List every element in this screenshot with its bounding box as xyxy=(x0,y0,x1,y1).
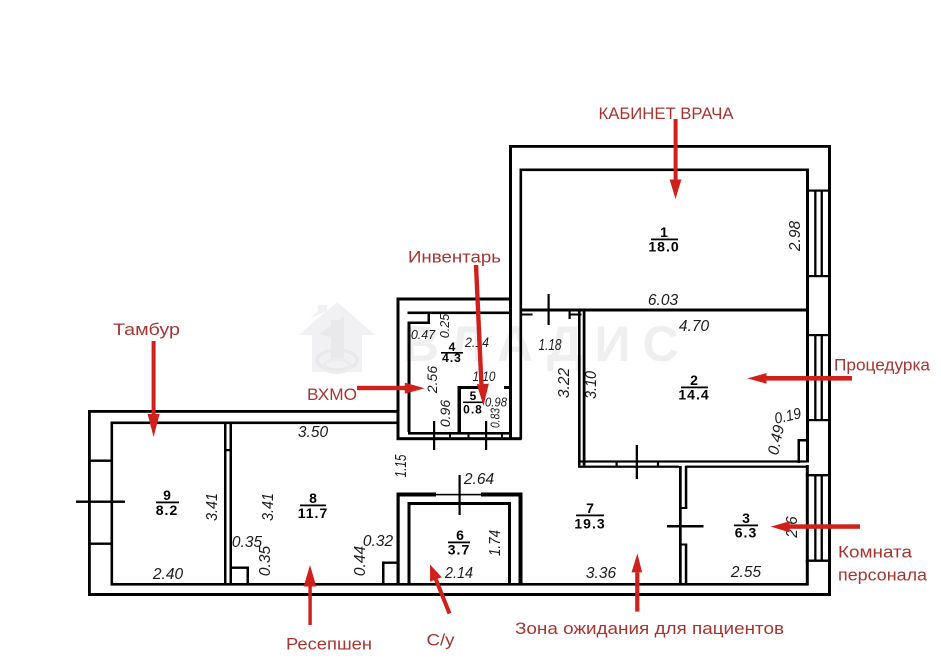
wall: room6 inner xyxy=(408,502,411,584)
wall: between room1 and room2 xyxy=(520,309,808,312)
svg-text:18.0: 18.0 xyxy=(648,239,679,255)
svg-text:9: 9 xyxy=(163,487,171,503)
red annotation: VHMO xyxy=(307,383,425,404)
wall: right outer of building xyxy=(828,145,831,596)
wall: left inner line xyxy=(111,422,114,586)
window1 bottom sill xyxy=(806,275,831,277)
wall: top inner of rooms 9 and 8 xyxy=(111,422,400,425)
wall: left outer of upper block / right of inventory block (line A) xyxy=(509,145,512,440)
svg-text:0.35: 0.35 xyxy=(257,546,274,577)
wall: WC block right xyxy=(519,493,523,586)
svg-text:2.40: 2.40 xyxy=(152,566,184,583)
wall: partition room7|room3 right line lower xyxy=(685,546,688,586)
svg-text:персонала: персонала xyxy=(838,566,928,585)
svg-text:Процедурка: Процедурка xyxy=(834,356,931,375)
svg-text:2.14: 2.14 xyxy=(444,565,473,582)
wall: room4 left inner xyxy=(408,322,411,433)
svg-text:Зона ожидания для пациентов: Зона ожидания для пациентов xyxy=(515,619,784,638)
window3 bottom sill xyxy=(806,560,831,562)
wall: room7 top lower line left part xyxy=(578,466,679,468)
svg-text:2.98: 2.98 xyxy=(787,221,804,253)
step room8 bottom-left 0.35 xyxy=(232,567,250,569)
wall: room5 top xyxy=(458,386,486,389)
wall: bottom inner line xyxy=(111,583,809,586)
wall: top outer of upper block xyxy=(509,145,831,148)
red annotation: procedure room xyxy=(747,356,930,384)
svg-text:19.3: 19.3 xyxy=(574,516,605,532)
wall: WC block top xyxy=(397,493,437,497)
wall: room8 right segment xyxy=(397,412,400,438)
svg-text:0.98: 0.98 xyxy=(485,396,507,410)
wall: room4 top inner xyxy=(408,312,510,315)
svg-text:0.8: 0.8 xyxy=(463,403,483,417)
tick: door of room2 xyxy=(636,445,638,479)
long ticks below inventory block xyxy=(433,421,435,450)
svg-text:0.44: 0.44 xyxy=(352,546,369,577)
svg-text:1.18: 1.18 xyxy=(539,337,562,354)
step 0.19x0.49 in room2 corner xyxy=(798,439,807,442)
red annotation: waiting zone xyxy=(515,553,784,638)
window1 glazing xyxy=(814,190,816,277)
red annotation: staff room xyxy=(771,521,928,584)
svg-text:1.74: 1.74 xyxy=(487,530,504,556)
svg-text:ВХМО: ВХМО xyxy=(307,385,357,404)
svg-text:2.14: 2.14 xyxy=(464,334,489,350)
red annotation: inventory xyxy=(408,248,501,407)
svg-text:5: 5 xyxy=(470,389,477,403)
svg-text:3.50: 3.50 xyxy=(298,424,329,441)
svg-text:4.3: 4.3 xyxy=(442,351,462,365)
walls xyxy=(76,145,831,596)
svg-text:1.15: 1.15 xyxy=(393,454,410,477)
wall: inventory block bottom inner xyxy=(408,432,511,435)
wall: room1 top inner xyxy=(520,169,808,172)
svg-text:3.36: 3.36 xyxy=(586,565,617,582)
svg-text:С/у: С/у xyxy=(427,631,456,650)
wall: room2 left (double line) xyxy=(578,312,581,466)
tick: left entrance xyxy=(76,501,125,503)
svg-text:1.10: 1.10 xyxy=(473,368,496,384)
svg-text:0.47: 0.47 xyxy=(411,328,436,342)
watermark house logo xyxy=(299,302,375,373)
window1 top sill xyxy=(806,190,831,192)
svg-text:6.3: 6.3 xyxy=(735,525,757,541)
room4 notch 0.47x0.25 xyxy=(408,322,431,325)
red annotation: WC xyxy=(427,565,456,650)
svg-text:2.56: 2.56 xyxy=(424,366,440,394)
window3 top sill xyxy=(806,474,831,476)
wall: room7 top lower line right part xyxy=(685,466,806,468)
tick: door room3 xyxy=(667,525,704,528)
svg-text:14.4: 14.4 xyxy=(678,387,709,403)
svg-text:6.03: 6.03 xyxy=(648,292,679,309)
wall: partition room7|room3 right line upper xyxy=(685,466,688,508)
jamb ticks in room7 top wall xyxy=(616,462,618,468)
svg-text:3.41: 3.41 xyxy=(260,493,277,521)
svg-text:Комната: Комната xyxy=(838,543,913,562)
svg-text:8: 8 xyxy=(309,490,317,506)
red annotation: tambour xyxy=(113,320,180,437)
wall: room5 left xyxy=(458,386,462,433)
left window dividers xyxy=(88,460,113,462)
wall: subline right jamb xyxy=(569,314,582,316)
wall: partition room9|room8 xyxy=(224,424,227,586)
svg-text:0.83: 0.83 xyxy=(489,408,503,428)
wall: partition room7|room3 left line xyxy=(679,466,682,586)
svg-text:КАБИНЕТ ВРАЧА: КАБИНЕТ ВРАЧА xyxy=(599,104,735,123)
svg-text:0.25: 0.25 xyxy=(438,314,452,338)
svg-text:2.64: 2.64 xyxy=(463,471,495,488)
window3 glazing xyxy=(814,475,816,561)
wall: inventory block bottom outer xyxy=(397,437,522,440)
jamb ticks xyxy=(449,434,451,438)
wall: WC block left xyxy=(397,493,400,586)
svg-text:4.70: 4.70 xyxy=(679,318,710,335)
wall: room1 right inner above window xyxy=(806,169,809,312)
wall: room3 right inner above window xyxy=(806,465,809,586)
tick: WC door dim xyxy=(459,475,461,515)
svg-text:8.2: 8.2 xyxy=(156,502,178,518)
svg-text:Ресепшен: Ресепшен xyxy=(286,635,372,654)
svg-text:2.55: 2.55 xyxy=(730,564,762,581)
svg-text:3.41: 3.41 xyxy=(204,493,221,521)
red annotation: reception xyxy=(286,565,372,654)
tick: corridor dim near room1 door xyxy=(548,294,550,325)
wall: subline left jamb xyxy=(520,314,533,316)
wall: left arm top outer xyxy=(88,410,400,413)
wall: inventory block left xyxy=(397,298,400,413)
window2 glazing xyxy=(814,335,816,420)
window2 top sill xyxy=(806,334,831,336)
wall: room7 top upper line xyxy=(578,460,806,462)
step room8 bottom-right 0.32x0.44 xyxy=(382,562,397,564)
svg-text:0.96: 0.96 xyxy=(437,400,453,427)
red annotation: cabinet doctor xyxy=(599,104,735,199)
wall: bottom outer xyxy=(88,593,831,596)
svg-text:3.7: 3.7 xyxy=(448,542,470,558)
room number labels xyxy=(156,224,758,558)
svg-text:3.10: 3.10 xyxy=(583,371,600,399)
svg-text:Инвентарь: Инвентарь xyxy=(408,248,501,267)
svg-text:Тамбур: Тамбур xyxy=(113,320,180,339)
wall: room2 right inner above window xyxy=(806,312,809,463)
svg-text:3.22: 3.22 xyxy=(556,368,573,399)
wall: left outer xyxy=(88,410,91,596)
wall: inventory block top xyxy=(397,298,513,301)
svg-text:11.7: 11.7 xyxy=(298,505,328,521)
wall: line B inner left of room1+corridor xyxy=(520,169,523,440)
dimension labels xyxy=(152,221,804,583)
svg-text:7: 7 xyxy=(586,500,594,516)
window2 bottom sill xyxy=(806,419,831,421)
